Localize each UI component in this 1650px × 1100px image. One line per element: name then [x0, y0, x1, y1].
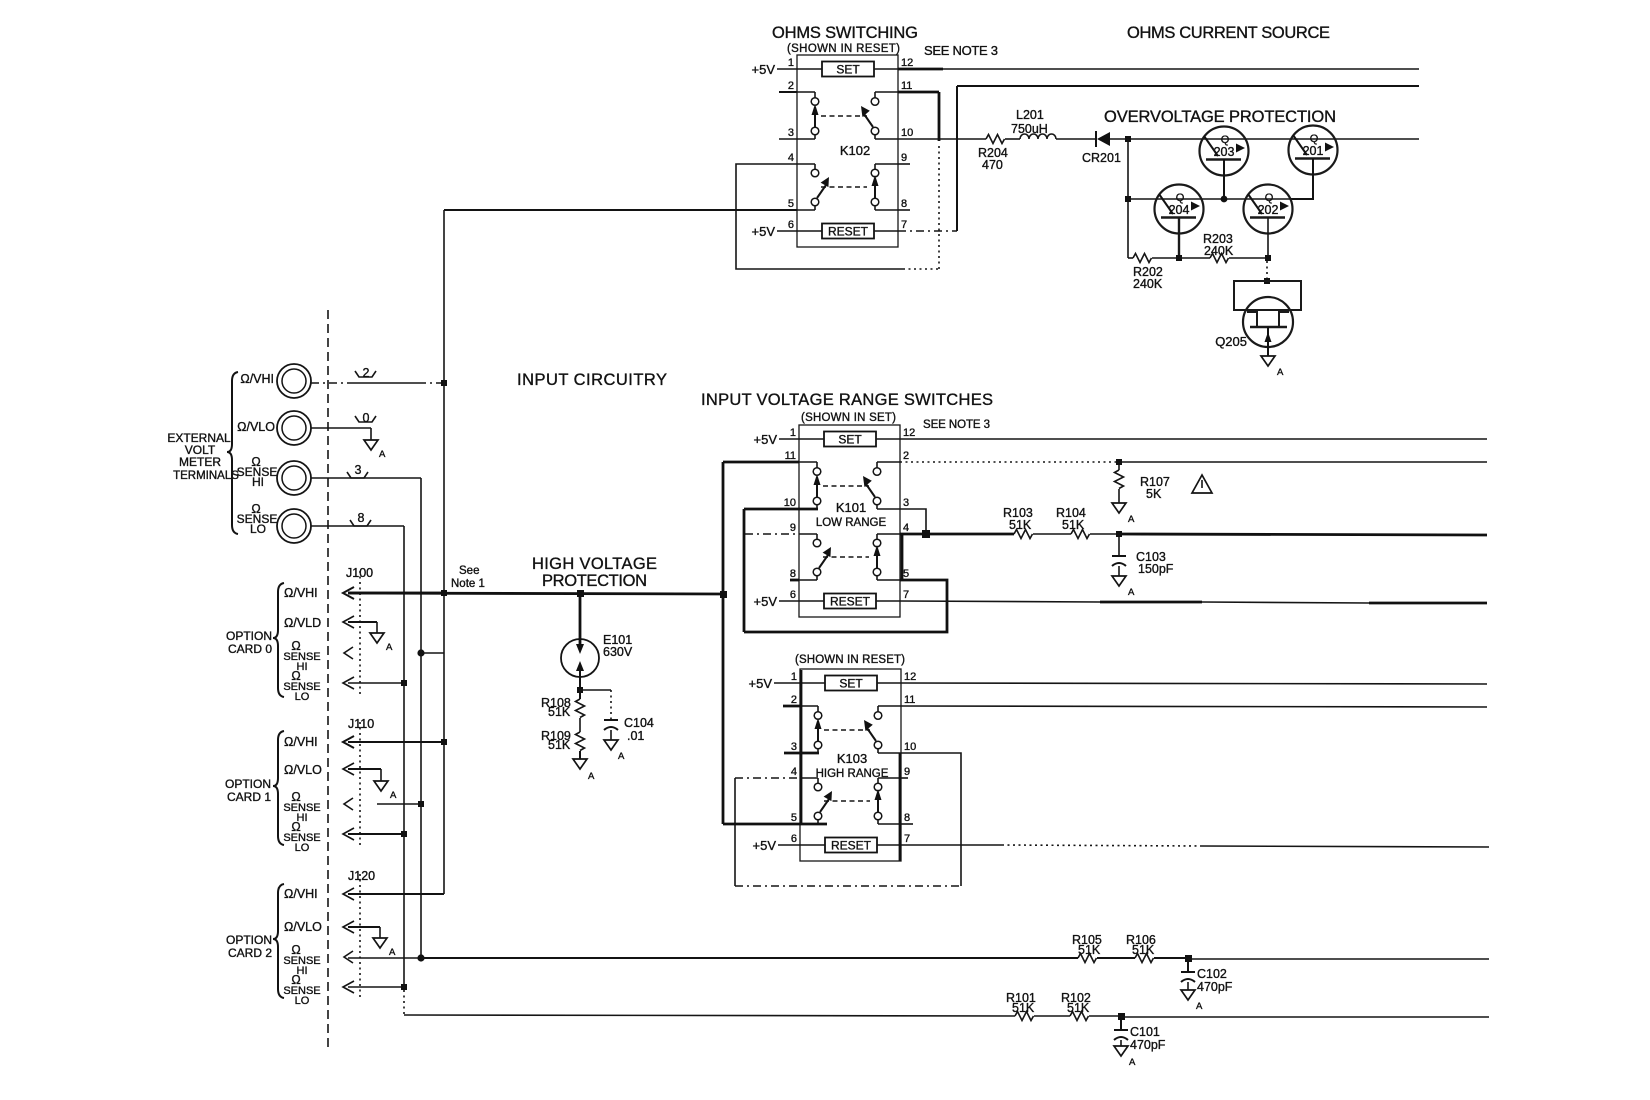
spark gap E101	[561, 594, 633, 690]
node C103	[1116, 531, 1122, 537]
resistor R108	[541, 690, 585, 719]
ground A Q205	[1261, 356, 1284, 378]
node pin3/pin4	[922, 530, 930, 538]
J100 SENSE HI arrow	[344, 647, 353, 659]
transistor Q204	[1155, 185, 1204, 259]
wire K103 pin5 thick	[723, 823, 827, 826]
wire K102 pin4 loop	[736, 164, 939, 269]
resistor R101	[1006, 991, 1036, 1021]
svg-text:51K: 51K	[1012, 1001, 1035, 1015]
svg-text:HIGH VOLTAGE: HIGH VOLTAGE	[532, 555, 657, 573]
svg-text:OPTION: OPTION	[226, 933, 272, 947]
svg-text:1: 1	[788, 57, 794, 69]
J100 dashed boundary	[359, 571, 361, 696]
svg-text:51K: 51K	[1062, 518, 1085, 532]
wire K103 lower loop dash-dot	[735, 885, 961, 887]
wire R101-R102	[1034, 1015, 1070, 1017]
node C101	[1118, 1013, 1125, 1020]
wire vertical CR201 node down	[1127, 139, 1129, 258]
+5V pin1 K102	[752, 62, 798, 77]
TITLES	[451, 24, 1336, 666]
svg-text:+5V: +5V	[754, 594, 778, 609]
wire K103 pin3 stub	[784, 752, 819, 755]
wire CR201 to Q203 rail	[1110, 138, 1419, 140]
brace terminals	[227, 372, 238, 534]
wire R108-R109	[579, 718, 581, 732]
OPTION CARD 1 group	[225, 777, 271, 804]
svg-text:3: 3	[788, 127, 794, 139]
svg-text:Q205: Q205	[1215, 334, 1247, 349]
wire ohms bus riser x=957	[956, 86, 958, 231]
ground A J110	[374, 781, 397, 801]
node J100 SENSE LO	[401, 680, 407, 686]
J110 VLO arrow wire to ground	[343, 763, 381, 781]
resistor R105	[1072, 933, 1102, 963]
svg-text:6: 6	[790, 589, 796, 601]
svg-text:9: 9	[904, 766, 910, 778]
svg-text:Ω/VHI: Ω/VHI	[284, 586, 318, 600]
svg-text:(SHOWN IN SET): (SHOWN IN SET)	[801, 412, 896, 424]
svg-text:LO: LO	[250, 522, 266, 536]
resistor R103	[1003, 506, 1033, 539]
svg-text:METER: METER	[179, 455, 221, 469]
inductor L201	[1011, 108, 1056, 139]
svg-text:+5V: +5V	[753, 838, 777, 853]
svg-text:3: 3	[791, 741, 797, 753]
left bus thick vertical x=723	[722, 462, 725, 824]
svg-text:A: A	[1196, 1001, 1203, 1012]
resistor R204	[978, 135, 1008, 173]
J100 SENSE LO arrow and wire	[343, 677, 404, 689]
node Q204 base row	[1176, 255, 1182, 261]
terminal OHM/VHI	[240, 364, 311, 398]
wire K101 pin7 right	[900, 601, 1487, 603]
relay K102	[797, 55, 898, 247]
svg-text:.01: .01	[627, 729, 644, 743]
terminal OHM SENSE LO	[237, 502, 311, 543]
card2 row label OHM SENSE HI	[283, 943, 320, 977]
+5V pin6 K103	[753, 838, 801, 853]
ground A terminal VLO	[364, 440, 386, 460]
svg-text:2: 2	[903, 450, 909, 462]
svg-text:5: 5	[903, 568, 909, 580]
wire terminal VLO	[311, 428, 371, 440]
wire K103 pin4 loop vertical	[734, 778, 736, 886]
ground A R109	[573, 759, 595, 782]
node HV line to bus	[720, 591, 727, 598]
wire R105-R106	[1097, 957, 1135, 959]
node J120 SENSE HI	[417, 954, 424, 961]
node VHI/J110	[441, 739, 447, 745]
svg-text:3: 3	[903, 497, 909, 509]
+5V pin6 K101	[754, 594, 800, 609]
connector pin 0	[355, 411, 376, 425]
K103 label	[816, 751, 889, 780]
transistor Q202	[1244, 185, 1293, 259]
J120 VHI arrow and wire	[343, 888, 444, 900]
transistor Q205	[1215, 281, 1301, 356]
ground A J100	[370, 633, 393, 653]
svg-text:LO: LO	[295, 691, 310, 703]
wire K101 pin3 corner	[900, 509, 926, 534]
vertical bus VHI x=444	[443, 210, 445, 894]
svg-text:K101: K101	[836, 500, 866, 515]
wire R203 to Q202 node	[1229, 257, 1268, 259]
svg-text:51K: 51K	[1078, 943, 1101, 957]
node Q205 gate	[1264, 278, 1270, 284]
wire K102 pin7 dash-dot	[898, 230, 957, 232]
svg-text:8: 8	[358, 511, 365, 525]
ground A J120	[373, 938, 396, 958]
wire node to right	[1121, 1016, 1489, 1018]
svg-text:Note 1: Note 1	[451, 578, 485, 590]
brace option card 1	[273, 731, 284, 845]
svg-text:51K: 51K	[1067, 1001, 1090, 1015]
wire R106 to node	[1154, 957, 1188, 959]
svg-text:J120: J120	[348, 869, 375, 883]
svg-text:INPUT CIRCUITRY: INPUT CIRCUITRY	[517, 371, 667, 389]
svg-text:201: 201	[1303, 144, 1324, 158]
wire R105 row (J120 SENSE HI net)	[421, 957, 1078, 959]
connector pin 8	[350, 511, 371, 526]
wire K101 pin8 stub	[790, 579, 799, 582]
wire K102 pin11 corner	[898, 92, 939, 269]
svg-text:Ω/VLO: Ω/VLO	[284, 763, 322, 777]
wire K101 pins 4-5 gang vertical	[901, 534, 904, 580]
wire K101 pin10	[744, 508, 818, 511]
svg-text:C101: C101	[1130, 1025, 1160, 1039]
wire K101 pin9 dash-dot	[745, 533, 799, 535]
svg-text:SEE NOTE 3: SEE NOTE 3	[923, 419, 990, 431]
ground A C104	[604, 740, 625, 762]
svg-text:A: A	[390, 790, 397, 801]
wire K103 pin4 dash-dot	[735, 777, 800, 779]
svg-text:12: 12	[901, 57, 913, 69]
wire Q204-Q202 rail	[1128, 198, 1291, 200]
svg-text:CR201: CR201	[1082, 151, 1121, 165]
card1 row label OHM SENSE LO	[283, 820, 320, 854]
svg-text:470: 470	[982, 158, 1003, 172]
resistor R104	[1056, 506, 1090, 539]
svg-text:CARD 2: CARD 2	[228, 946, 272, 960]
EXTERNAL VOLT METER TERMINALS	[167, 431, 239, 482]
svg-text:11: 11	[901, 80, 912, 92]
svg-text:(SHOWN IN RESET): (SHOWN IN RESET)	[787, 43, 900, 55]
svg-text:See: See	[459, 565, 479, 577]
wire R102 to node	[1089, 1015, 1121, 1017]
svg-text:L201: L201	[1016, 108, 1044, 122]
svg-text:OPTION: OPTION	[225, 777, 271, 791]
ground A C101	[1114, 1046, 1136, 1068]
svg-text:Ω/VHI: Ω/VHI	[284, 735, 318, 749]
svg-text:A: A	[1128, 587, 1135, 598]
loop bottom K101	[744, 580, 947, 632]
svg-text:203: 203	[1214, 145, 1235, 159]
J110 SENSE HI arrow and wire	[344, 798, 421, 810]
wire R202 row	[1128, 257, 1133, 259]
node Q203 emitter rail	[1221, 196, 1228, 203]
svg-text:5: 5	[788, 198, 794, 210]
card1 row label OHM SENSE HI	[283, 790, 320, 824]
svg-text:8: 8	[790, 568, 796, 580]
J120 dashed boundary	[359, 874, 361, 1000]
svg-text:8: 8	[904, 812, 910, 824]
capacitor C102	[1181, 962, 1233, 994]
svg-text:51K: 51K	[548, 738, 571, 752]
+5V pin6 K102	[752, 224, 798, 239]
wire terminal SENSE LO	[311, 525, 404, 527]
resistor R203	[1203, 232, 1234, 263]
svg-text:OPTION: OPTION	[226, 629, 272, 643]
card0 row label OHM SENSE HI	[283, 639, 320, 673]
wire K103 pin10 corner	[901, 753, 961, 886]
svg-text:INPUT VOLTAGE RANGE SWITCHES: INPUT VOLTAGE RANGE SWITCHES	[701, 391, 993, 409]
capacitor C104	[604, 716, 654, 743]
svg-text:10: 10	[784, 497, 796, 509]
svg-text:11: 11	[904, 694, 915, 706]
svg-text:OVERVOLTAGE PROTECTION: OVERVOLTAGE PROTECTION	[1104, 108, 1336, 126]
wire K103 pin9 stub	[901, 777, 908, 779]
brace option card 2	[273, 884, 284, 998]
svg-text:2: 2	[363, 366, 370, 380]
svg-text:A: A	[1129, 1057, 1136, 1068]
svg-text:10: 10	[901, 127, 913, 139]
wire R109 to ground	[579, 751, 581, 759]
svg-text:1: 1	[790, 427, 796, 439]
terminal OHM SENSE HI	[237, 455, 311, 495]
svg-text:0: 0	[363, 411, 370, 425]
J110 dashed boundary	[359, 722, 361, 848]
relay K103	[800, 669, 901, 861]
diode CR201	[1082, 131, 1121, 165]
node below E101	[577, 687, 583, 693]
wire K102 pin10 to R204	[898, 138, 986, 140]
OPTION CARD 2 group	[226, 933, 272, 960]
svg-text:12: 12	[904, 671, 916, 683]
svg-text:4: 4	[903, 522, 909, 534]
wire K103 pin2 stub	[783, 705, 800, 708]
svg-text:150pF: 150pF	[1138, 562, 1174, 576]
node R107	[1116, 459, 1122, 465]
wire K102 pin3 stub	[779, 138, 797, 140]
svg-text:51K: 51K	[548, 705, 571, 719]
wire ohms upper rail y=86	[957, 85, 1419, 87]
svg-text:204: 204	[1169, 203, 1190, 217]
svg-text:LOW RANGE: LOW RANGE	[816, 517, 887, 529]
resistor R102	[1061, 991, 1091, 1021]
svg-text:4: 4	[791, 766, 797, 778]
wire terminal VHI to node (dash-dot)	[311, 382, 441, 384]
node E101 top	[577, 590, 584, 597]
capacitor C101	[1114, 1020, 1166, 1052]
OPTION CARD 0 group	[226, 629, 272, 656]
svg-text:HI: HI	[252, 475, 264, 489]
HV protection thick line	[348, 593, 723, 594]
connector pin 2	[355, 366, 376, 380]
resistor R109	[541, 729, 585, 752]
wire K101 pin2 dotted right	[900, 461, 1487, 463]
svg-text:2: 2	[788, 80, 794, 92]
svg-text:A: A	[386, 642, 393, 653]
J110 SENSE LO arrow and wire	[343, 828, 404, 840]
node J110 SENSE LO	[401, 831, 407, 837]
wire R104 to node	[1090, 533, 1119, 535]
J100 SENSE HI node and stub	[417, 649, 444, 656]
node CR201 junction	[1125, 136, 1131, 142]
svg-text:C104: C104	[624, 716, 654, 730]
node C102	[1185, 955, 1192, 962]
svg-text:6: 6	[791, 833, 797, 845]
wire to C104	[580, 690, 611, 719]
svg-text:C102: C102	[1197, 967, 1227, 981]
vertical bus SENSE LO x=404	[403, 526, 405, 1014]
J120 VLO arrow wire to ground	[343, 921, 380, 938]
svg-text:A: A	[1277, 367, 1284, 378]
chassis boundary dashed vertical	[327, 310, 329, 1052]
node Q202 base row	[1265, 255, 1271, 261]
svg-text:Ω/VHI: Ω/VHI	[284, 887, 318, 901]
wire R101 row (J120 SENSE LO net)	[404, 1015, 1015, 1016]
svg-text:A: A	[618, 751, 625, 762]
resistor R107	[1115, 465, 1170, 503]
svg-text:240K: 240K	[1204, 244, 1234, 258]
wire K101 pin4 thick right	[900, 533, 1014, 536]
svg-text:TERMINALS: TERMINALS	[173, 470, 239, 482]
J110 VHI arrow and wire	[343, 736, 444, 748]
svg-text:7: 7	[901, 219, 907, 231]
wire terminal SENSE HI	[311, 477, 421, 479]
svg-text:9: 9	[901, 152, 907, 164]
node at Q204 rail	[1125, 196, 1131, 202]
wire K102 pin12 to right	[898, 68, 1419, 71]
J120 SENSE LO arrow and wire	[343, 981, 404, 993]
card0 row label OHM SENSE LO	[283, 669, 320, 703]
J120 SENSE HI arrow and wire	[344, 951, 421, 963]
svg-text:7: 7	[903, 589, 909, 601]
node VHI/J100	[441, 590, 447, 596]
wire K101 pin12 right	[900, 438, 1487, 440]
svg-text:2: 2	[791, 694, 797, 706]
svg-text:J110: J110	[348, 717, 374, 731]
svg-text:5: 5	[791, 812, 797, 824]
svg-text:470pF: 470pF	[1130, 1038, 1166, 1052]
svg-text:CARD 1: CARD 1	[227, 790, 271, 804]
svg-text:A: A	[1128, 514, 1135, 525]
wire to R203	[1179, 257, 1210, 259]
wire K103 pin8 stub	[901, 823, 913, 825]
warning triangle	[1192, 475, 1212, 493]
wire node to right thick	[1119, 534, 1487, 535]
svg-text:+5V: +5V	[752, 224, 776, 239]
K101 label	[816, 500, 887, 529]
wire K101 pin11	[723, 461, 799, 464]
vertical bus SENSE HI x=421	[420, 478, 422, 958]
svg-text:A: A	[389, 947, 396, 958]
svg-text:11: 11	[785, 450, 796, 462]
card2 row label OHM SENSE LO	[283, 973, 320, 1007]
transistor Q201	[1289, 126, 1338, 200]
node J120 SENSE LO	[401, 984, 407, 990]
K103 heavy box edges	[800, 670, 803, 824]
resistor R202	[1133, 254, 1163, 292]
ground A C103	[1112, 576, 1135, 598]
svg-text:Ω/VLO: Ω/VLO	[284, 920, 322, 934]
relay K101	[799, 425, 900, 617]
wire L201 to CR201	[1056, 138, 1096, 140]
svg-text:A: A	[588, 771, 595, 782]
svg-text:LO: LO	[295, 842, 310, 854]
+5V pin1 K101	[754, 432, 800, 447]
svg-text:OHMS SWITCHING: OHMS SWITCHING	[772, 24, 918, 42]
svg-text:202: 202	[1258, 203, 1279, 217]
wire R202 to Q204 node	[1152, 257, 1179, 259]
svg-text:750uH: 750uH	[1011, 122, 1048, 136]
svg-text:+5V: +5V	[754, 432, 778, 447]
svg-text:CARD 0: CARD 0	[228, 642, 272, 656]
capacitor C103	[1112, 537, 1174, 576]
svg-text:Ω/VHI: Ω/VHI	[240, 372, 274, 386]
wire K102 pin2 stub	[779, 91, 797, 93]
J100 VHI arrow and thick wire (See Note 1 net)	[343, 587, 444, 599]
ground A C102	[1181, 990, 1203, 1012]
svg-text:K102: K102	[840, 143, 870, 158]
svg-text:240K: 240K	[1133, 277, 1163, 291]
svg-text:12: 12	[903, 427, 915, 439]
wire K102 pin9 stub	[898, 163, 910, 165]
transistor Q203	[1200, 127, 1249, 200]
brace option card 0	[273, 583, 284, 697]
svg-text:470pF: 470pF	[1197, 980, 1233, 994]
svg-text:(SHOWN IN RESET): (SHOWN IN RESET)	[795, 654, 905, 666]
loop vertical x=744	[743, 509, 746, 632]
svg-text:+5V: +5V	[752, 62, 776, 77]
svg-text:10: 10	[904, 741, 916, 753]
svg-text:7: 7	[904, 833, 910, 845]
wire K103 pin12 right	[901, 683, 1487, 684]
svg-text:SEE NOTE 3: SEE NOTE 3	[924, 43, 998, 58]
wire K103 pin11 right	[901, 706, 1487, 707]
node on VHI line	[441, 380, 447, 386]
svg-text:Ω/VLO: Ω/VLO	[237, 420, 275, 434]
ground A R107	[1112, 503, 1135, 525]
svg-text:LO: LO	[295, 995, 310, 1007]
terminal OHM/VLO	[237, 411, 311, 445]
resistor R106	[1126, 933, 1156, 963]
svg-text:51K: 51K	[1009, 518, 1032, 532]
dashed wire to Q205	[1266, 261, 1268, 279]
svg-text:1: 1	[791, 671, 797, 683]
svg-text:+5V: +5V	[749, 676, 773, 691]
svg-text:3: 3	[355, 463, 362, 477]
svg-text:5K: 5K	[1146, 487, 1162, 501]
svg-text:OHMS CURRENT SOURCE: OHMS CURRENT SOURCE	[1127, 24, 1330, 42]
svg-text:Ω/VLD: Ω/VLD	[284, 616, 321, 630]
svg-text:A: A	[379, 449, 386, 460]
+5V pin1 K103	[749, 676, 801, 691]
J100 VLD arrow wire to ground	[343, 616, 377, 633]
wire K103 pin7 right	[901, 845, 1489, 847]
svg-text:HIGH RANGE: HIGH RANGE	[816, 768, 889, 780]
svg-text:8: 8	[901, 198, 907, 210]
node J110 SENSE HI	[418, 801, 424, 807]
svg-text:630V: 630V	[603, 645, 633, 659]
svg-text:4: 4	[788, 152, 794, 164]
wire R204 to L201	[1005, 138, 1020, 140]
svg-text:51K: 51K	[1132, 943, 1155, 957]
wire node to right	[1188, 958, 1489, 960]
svg-text:PROTECTION: PROTECTION	[542, 572, 647, 590]
svg-text:K103: K103	[837, 751, 867, 766]
